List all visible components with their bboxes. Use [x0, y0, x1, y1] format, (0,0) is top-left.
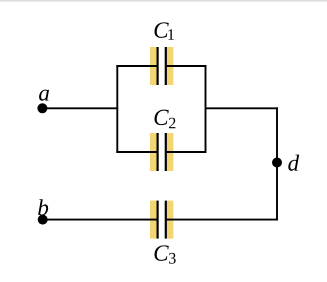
node a terminal dot [37, 103, 47, 113]
wire box top edge left of C1 [116, 65, 158, 67]
wire node a to parallel box [42, 107, 118, 109]
wire box bottom edge left of C2 [116, 151, 158, 153]
capacitor C3 dielectric bands [150, 201, 173, 239]
node b terminal dot [38, 215, 48, 225]
capacitor C1 dielectric bands [150, 47, 173, 85]
capacitor C1 plates [158, 47, 166, 85]
wire box to right column [206, 107, 278, 109]
capacitor C3 plates [158, 201, 166, 239]
capacitor C2 dielectric bands [150, 133, 173, 171]
node d junction dot [272, 158, 282, 168]
label C1 [154, 22, 173, 39]
wire box bottom edge right of C2 [165, 151, 206, 153]
top screenshot border fade [0, 0, 327, 3]
wire box top edge right of C1 [165, 65, 206, 67]
wire box right edge [205, 65, 207, 153]
label node d [288, 155, 299, 171]
wire box left edge [116, 65, 118, 153]
wire node b to C3 [43, 219, 158, 221]
label C3 [154, 245, 175, 263]
label node a [39, 90, 49, 101]
label node b [38, 199, 48, 215]
wire right column through node d [276, 107, 278, 220]
capacitor C2 plates [158, 133, 166, 171]
wire bottom right: corner to C3 [165, 219, 278, 221]
label C2 [154, 110, 175, 129]
